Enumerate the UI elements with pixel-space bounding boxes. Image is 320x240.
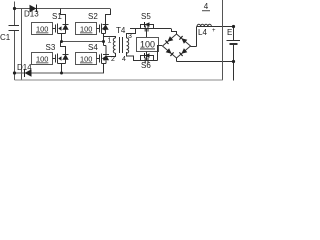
svg-text:S6: S6 [141,61,151,70]
svg-text:100: 100 [80,25,92,34]
svg-text:100: 100 [80,55,92,64]
svg-text:4: 4 [204,2,209,11]
svg-text:S1: S1 [52,12,62,21]
svg-text:S3: S3 [46,43,56,52]
svg-text:3: 3 [128,33,132,40]
svg-text:L4: L4 [198,28,207,37]
svg-text:4: 4 [122,56,126,63]
svg-text:D13: D13 [24,10,39,19]
svg-text:S5: S5 [141,12,151,21]
svg-text:100: 100 [36,55,48,64]
svg-text:100: 100 [140,40,155,50]
svg-text:T4: T4 [116,26,126,35]
svg-text:1: 1 [108,38,112,45]
svg-text:2: 2 [111,56,115,63]
svg-text:+: + [212,28,216,34]
svg-text:D14: D14 [17,63,32,72]
svg-text:S4: S4 [88,43,98,52]
svg-text:S2: S2 [88,12,98,21]
svg-text:C1: C1 [0,33,11,42]
svg-text:100: 100 [36,25,48,34]
svg-text:E: E [227,28,232,37]
